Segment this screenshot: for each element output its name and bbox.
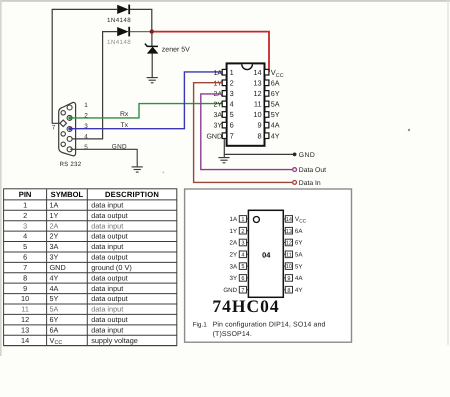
svg-text:RS 232: RS 232 bbox=[60, 161, 82, 168]
svg-text:13: 13 bbox=[21, 325, 29, 334]
J1 pin 8 hole bbox=[61, 132, 65, 136]
svg-text:10: 10 bbox=[21, 294, 29, 303]
Fig pin 10 square bbox=[283, 263, 292, 270]
U1 pin 11 bbox=[265, 101, 269, 107]
svg-text:data output: data output bbox=[91, 211, 128, 220]
U1 pin 2 label 1Y bbox=[213, 80, 222, 87]
table row pin 11 bbox=[21, 305, 123, 314]
J1 pin 4 label bbox=[84, 133, 88, 140]
J1 pin 2 hole bbox=[67, 115, 72, 120]
svg-text:12: 12 bbox=[253, 89, 261, 98]
wire zener anode to ground bbox=[151, 53, 153, 77]
U1 pin 8 label 4Y bbox=[271, 131, 280, 140]
wire J1 pin 5 to ground bbox=[70, 149, 137, 167]
svg-text:4A: 4A bbox=[295, 275, 303, 282]
svg-text:2: 2 bbox=[241, 229, 244, 235]
U1 pin 13 bbox=[265, 80, 269, 86]
svg-text:6Y: 6Y bbox=[50, 315, 59, 324]
J1 pin 7 hole bbox=[60, 120, 67, 127]
table row pin 13 bbox=[21, 325, 123, 334]
svg-text:data input: data input bbox=[91, 242, 123, 251]
U1 pin 11 label 5A bbox=[271, 100, 280, 109]
table row pin 3 bbox=[23, 221, 123, 230]
svg-text:Data In: Data In bbox=[299, 180, 321, 187]
Fig pin 7 label GND bbox=[223, 287, 237, 294]
svg-text:6Y: 6Y bbox=[295, 240, 303, 247]
svg-text:14: 14 bbox=[286, 217, 292, 223]
Fig pin 5 label 3A bbox=[230, 263, 238, 270]
wire Data Out (purple): U1 pin 3 to terminal bbox=[201, 94, 293, 170]
table row pin 2 bbox=[23, 211, 128, 220]
U1 pin 6 number bbox=[230, 121, 234, 130]
Fig pin 10 label 5Y bbox=[295, 263, 303, 270]
caption Fig.1 bbox=[193, 321, 208, 328]
wire node VCC to zener cathode bbox=[151, 33, 153, 46]
Fig pin 8 square bbox=[283, 286, 292, 293]
terminal Data Out dot bbox=[293, 168, 297, 172]
U1 pin 10 number bbox=[253, 110, 261, 119]
U1 pin 1 number bbox=[230, 68, 234, 77]
svg-text:4: 4 bbox=[23, 232, 27, 241]
Fig pin 9 square bbox=[283, 275, 292, 282]
Fig pin 1 label 1A bbox=[230, 216, 238, 223]
caption text line 1 bbox=[213, 320, 326, 328]
U1 pin 7 number bbox=[230, 131, 234, 140]
table row pin 4 bbox=[23, 232, 128, 241]
U1 pin 6 label 3Y bbox=[213, 123, 222, 130]
svg-text:data output: data output bbox=[91, 315, 128, 324]
svg-text:2Y: 2Y bbox=[50, 232, 59, 241]
svg-text:3Y: 3Y bbox=[230, 275, 238, 282]
svg-text:Data Out: Data Out bbox=[299, 167, 326, 174]
wire VCC net (red) to U1 pin 14 bbox=[154, 32, 270, 71]
wire Tx (blue): J1 pin 3 to U1 pin 1 bbox=[70, 72, 222, 129]
svg-text:3Y: 3Y bbox=[50, 253, 59, 262]
U1 pin 5 label 3A bbox=[213, 112, 222, 119]
U1 pin 2 bbox=[222, 80, 226, 86]
svg-text:SYMBOL: SYMBOL bbox=[51, 190, 84, 199]
svg-text:3: 3 bbox=[23, 221, 27, 230]
svg-text:8: 8 bbox=[257, 131, 261, 140]
Fig pin 3 square bbox=[239, 239, 248, 246]
Fig pin 12 square bbox=[283, 239, 292, 246]
svg-text:DESCRIPTION: DESCRIPTION bbox=[105, 190, 159, 199]
Fig pin 1 square bbox=[239, 216, 248, 223]
svg-text:6A: 6A bbox=[50, 325, 59, 334]
svg-text:4A: 4A bbox=[50, 284, 59, 293]
svg-text:data output: data output bbox=[91, 294, 128, 303]
svg-text:1: 1 bbox=[230, 68, 234, 77]
U1 pin 11 number bbox=[254, 100, 262, 109]
U1 pin 3 label 2A bbox=[213, 91, 222, 98]
diode D1 1N4148 bbox=[117, 5, 129, 15]
caption text line 2 bbox=[213, 330, 252, 338]
svg-text:GND: GND bbox=[206, 133, 222, 140]
Fig pin 12 label 6Y bbox=[295, 240, 303, 247]
svg-text:9: 9 bbox=[23, 284, 27, 293]
label 74HC04 bbox=[212, 296, 279, 316]
connector J1 DB9 shell RS 232 bbox=[59, 102, 76, 156]
svg-text:4: 4 bbox=[241, 252, 244, 258]
svg-text:6Y: 6Y bbox=[271, 89, 280, 98]
svg-text:4Y: 4Y bbox=[271, 131, 280, 140]
U1 pin 9 number bbox=[257, 121, 261, 130]
svg-text:12: 12 bbox=[286, 241, 292, 247]
U1 pin 7 label GND bbox=[206, 133, 222, 140]
op IC U1 74HC04 body bbox=[227, 63, 265, 145]
svg-text:6: 6 bbox=[241, 276, 244, 282]
svg-text:1A: 1A bbox=[230, 216, 238, 223]
zener diode D3 5V bbox=[145, 44, 159, 54]
J1 pin 3 label bbox=[84, 123, 88, 130]
J1 pin 4 hole bbox=[67, 136, 72, 141]
U1 pin 3 bbox=[222, 91, 226, 97]
Fig DIP package U2 body bbox=[248, 210, 283, 297]
U1 pin 4 bbox=[222, 101, 226, 107]
U1 pin 3 number bbox=[230, 89, 234, 98]
U1 pin 7 bbox=[222, 133, 226, 139]
Fig pin 6 square bbox=[239, 275, 248, 282]
diode D2 1N4148 bbox=[117, 27, 129, 37]
scan border top bbox=[0, 0, 450, 2]
svg-text:1Y: 1Y bbox=[230, 228, 238, 235]
U1 pin 12 number bbox=[253, 89, 261, 98]
svg-text:5: 5 bbox=[241, 264, 244, 270]
Fig pin 14 square bbox=[283, 216, 292, 223]
svg-text:7: 7 bbox=[52, 125, 56, 132]
table header row bbox=[19, 190, 159, 199]
svg-text:11: 11 bbox=[21, 305, 29, 314]
svg-text:CC: CC bbox=[55, 340, 63, 346]
svg-text:1A: 1A bbox=[213, 70, 222, 77]
terminal Data In dot bbox=[293, 181, 297, 185]
svg-text:5Y: 5Y bbox=[50, 294, 59, 303]
svg-text:1: 1 bbox=[23, 201, 27, 210]
table row pin 6 bbox=[23, 253, 128, 262]
J1 pin 5 label bbox=[84, 144, 88, 151]
J1 pin 3 hole bbox=[67, 127, 72, 132]
svg-text:GND: GND bbox=[50, 263, 66, 272]
svg-text:3A: 3A bbox=[50, 242, 59, 251]
svg-text:data output: data output bbox=[91, 232, 128, 241]
svg-text:data input: data input bbox=[91, 201, 123, 210]
J1 pin 9 hole bbox=[61, 142, 65, 146]
svg-text:data input: data input bbox=[91, 305, 123, 314]
table row pin 10 bbox=[21, 294, 128, 303]
label Data Out terminal bbox=[299, 167, 326, 174]
U1 pin 5 number bbox=[230, 110, 234, 119]
Fig gate label 04 bbox=[262, 250, 271, 259]
U1 pin 12 label 6Y bbox=[271, 89, 280, 98]
Fig pin 6 label 3Y bbox=[230, 275, 238, 282]
U1 pin 6 bbox=[222, 122, 226, 128]
U1 pin 13 label 6A bbox=[271, 78, 280, 87]
svg-text:74HC04: 74HC04 bbox=[212, 296, 279, 316]
svg-text:3: 3 bbox=[241, 241, 244, 247]
Fig.1 box frame bbox=[185, 189, 352, 342]
Fig pin 13 label 6A bbox=[295, 228, 303, 235]
terminal GND dot bbox=[293, 153, 297, 157]
svg-text:1: 1 bbox=[84, 102, 88, 109]
svg-text:9: 9 bbox=[257, 121, 261, 130]
svg-text:13: 13 bbox=[286, 229, 292, 235]
Fig pin 5 square bbox=[239, 263, 248, 270]
label Data In terminal bbox=[299, 180, 321, 187]
U1 pin 4 number bbox=[230, 100, 234, 109]
svg-text:data output: data output bbox=[91, 253, 128, 262]
svg-text:5: 5 bbox=[230, 110, 234, 119]
svg-text:6: 6 bbox=[230, 121, 234, 130]
U1 pin 14 bbox=[265, 69, 269, 75]
svg-text:12: 12 bbox=[21, 315, 29, 324]
U1 pin 10 label 5Y bbox=[271, 110, 280, 119]
U1 pin 5 bbox=[222, 112, 226, 118]
svg-text:3: 3 bbox=[230, 89, 234, 98]
Fig pin 7 square bbox=[239, 286, 248, 293]
svg-text:Pin configuration DIP14, SO14: Pin configuration DIP14, SO14 and bbox=[213, 320, 326, 328]
U1 pin 14 label VCC bbox=[271, 68, 284, 79]
svg-text:5A: 5A bbox=[50, 305, 59, 314]
svg-text:2A: 2A bbox=[230, 240, 238, 247]
U1 pin 1 bbox=[222, 69, 226, 75]
U1 pin 8 bbox=[265, 133, 269, 139]
label D1 value 1N4148 bbox=[107, 17, 131, 24]
svg-text:Rx: Rx bbox=[120, 111, 129, 118]
U1 pin 12 bbox=[265, 91, 269, 97]
scan border right bbox=[447, 0, 448, 345]
svg-text:GND: GND bbox=[112, 144, 127, 151]
svg-text:1N4148: 1N4148 bbox=[107, 17, 131, 24]
svg-text:3A: 3A bbox=[230, 263, 238, 270]
Fig pin 2 square bbox=[239, 227, 248, 234]
label RS 232 bbox=[60, 161, 82, 168]
svg-text:GND: GND bbox=[223, 287, 237, 294]
label zener 5V bbox=[162, 47, 190, 54]
svg-text:5Y: 5Y bbox=[271, 110, 280, 119]
Fig pin 14 label VCC bbox=[295, 216, 307, 224]
U1 pin 8 number bbox=[257, 131, 261, 140]
svg-text:4A: 4A bbox=[271, 121, 280, 130]
svg-text:data input: data input bbox=[91, 325, 123, 334]
wire ground net from U1 pin 7 bbox=[224, 139, 293, 155]
wire Data In (maroon): U1 pin 2 to terminal bbox=[194, 83, 294, 183]
Fig pin 2 label 1Y bbox=[230, 228, 238, 235]
table row pin 7 bbox=[23, 263, 132, 272]
ground symbol below U1 bbox=[218, 158, 229, 163]
svg-text:Tx: Tx bbox=[121, 122, 129, 129]
svg-text:04: 04 bbox=[262, 250, 271, 259]
svg-text:8: 8 bbox=[287, 288, 290, 294]
svg-text:CC: CC bbox=[299, 219, 306, 225]
svg-text:1Y: 1Y bbox=[50, 211, 59, 220]
svg-text:13: 13 bbox=[253, 78, 261, 87]
svg-text:6A: 6A bbox=[295, 228, 303, 235]
table row pin 12 bbox=[21, 315, 128, 324]
pin function table bbox=[4, 189, 177, 346]
Fig pin 11 label 5A bbox=[295, 252, 303, 259]
node J1 pin3 blue dot bbox=[68, 127, 71, 130]
svg-text:1: 1 bbox=[241, 217, 244, 223]
label GND at J1 pin 5 bbox=[112, 144, 127, 151]
node VCC junction bbox=[150, 29, 154, 33]
svg-text:data input: data input bbox=[91, 221, 123, 230]
svg-text:7: 7 bbox=[241, 288, 244, 294]
label Rx bbox=[120, 111, 129, 118]
svg-text:3Y: 3Y bbox=[213, 123, 222, 130]
Fig pin 13 square bbox=[283, 227, 292, 234]
svg-text:2Y: 2Y bbox=[230, 252, 238, 259]
Fig pin 11 square bbox=[283, 251, 292, 258]
table row pin 9 bbox=[23, 284, 123, 293]
U1 pin 1 label 1A bbox=[213, 70, 222, 77]
Fig pin 3 label 2A bbox=[230, 240, 238, 247]
table row pin 1 bbox=[23, 201, 123, 210]
svg-text:data output: data output bbox=[91, 273, 128, 282]
svg-text:1N4148: 1N4148 bbox=[107, 39, 131, 46]
J1 pin 1 label bbox=[84, 102, 88, 109]
Fig pin 8 label 4Y bbox=[295, 287, 303, 294]
U1 pin 13 number bbox=[253, 78, 261, 87]
svg-text:9: 9 bbox=[287, 276, 290, 282]
svg-text:10: 10 bbox=[286, 264, 292, 270]
svg-text:10: 10 bbox=[253, 110, 261, 119]
svg-text:supply voltage: supply voltage bbox=[91, 336, 138, 345]
svg-text:7: 7 bbox=[23, 263, 27, 272]
scan speck bbox=[408, 129, 410, 131]
svg-text:data input: data input bbox=[91, 284, 123, 293]
svg-text:5A: 5A bbox=[271, 100, 280, 109]
Fig pin 9 label 4A bbox=[295, 275, 303, 282]
Fig pin 4 label 2Y bbox=[230, 252, 238, 259]
svg-text:14: 14 bbox=[253, 68, 261, 77]
label Tx bbox=[121, 122, 129, 129]
svg-text:Fig.1: Fig.1 bbox=[193, 321, 208, 328]
svg-text:5A: 5A bbox=[295, 252, 303, 259]
svg-text:8: 8 bbox=[23, 273, 27, 282]
U1 pin 14 number bbox=[253, 68, 261, 77]
node J1 pin2 green dot bbox=[68, 116, 71, 119]
svg-text:7: 7 bbox=[230, 131, 234, 140]
wire D2 cathode to node VCC bbox=[130, 31, 152, 33]
svg-text:GND: GND bbox=[299, 152, 315, 159]
wire D1 cathode to node VCC bbox=[130, 9, 152, 31]
svg-text:zener 5V: zener 5V bbox=[162, 47, 190, 54]
ground symbol below zener bbox=[147, 78, 158, 83]
wire DTR net: DB9 pin 4 to D2 anode bbox=[70, 32, 117, 139]
J1 pin 6 hole bbox=[61, 111, 65, 115]
svg-text:ground (0 V): ground (0 V) bbox=[91, 263, 132, 272]
svg-text:5Y: 5Y bbox=[295, 263, 303, 270]
svg-text:6A: 6A bbox=[271, 78, 280, 87]
J1 pin 5 hole bbox=[67, 147, 72, 152]
svg-text:4: 4 bbox=[230, 100, 234, 109]
U1 pin 9 bbox=[265, 122, 269, 128]
svg-text:4: 4 bbox=[84, 133, 88, 140]
svg-text:3A: 3A bbox=[213, 112, 222, 119]
svg-text:1A: 1A bbox=[50, 201, 59, 210]
wire Rx (green): J1 pin 2 to U1 pin 4 bbox=[70, 104, 222, 118]
svg-text:PIN: PIN bbox=[19, 190, 32, 199]
svg-text:11: 11 bbox=[254, 100, 262, 109]
label D2 value 1N4148 bbox=[107, 39, 131, 46]
U1 pin 9 label 4A bbox=[271, 121, 280, 130]
table row pin 8 bbox=[23, 273, 128, 282]
svg-text:2: 2 bbox=[230, 78, 234, 87]
svg-text:14: 14 bbox=[21, 336, 29, 345]
ground symbol below J1 bbox=[132, 167, 143, 172]
svg-text:6: 6 bbox=[23, 253, 27, 262]
U1 pin 4 label 2Y bbox=[213, 102, 222, 109]
J1 pin 1 hole bbox=[67, 105, 72, 110]
label GND terminal bbox=[299, 152, 315, 159]
svg-text:2A: 2A bbox=[50, 221, 59, 230]
J1 pin 2 label bbox=[84, 112, 88, 119]
J1 pin 7 label bbox=[52, 125, 56, 132]
svg-text:1Y: 1Y bbox=[213, 80, 222, 87]
Fig pin 1 indicator circle bbox=[253, 217, 259, 223]
svg-text:4Y: 4Y bbox=[295, 287, 303, 294]
U1 pin 2 number bbox=[230, 78, 234, 87]
svg-text:11: 11 bbox=[286, 252, 292, 258]
svg-text:2: 2 bbox=[23, 211, 27, 220]
svg-text:4Y: 4Y bbox=[50, 273, 59, 282]
scan border left bbox=[0, 0, 2, 356]
U1 pin 10 bbox=[265, 112, 269, 118]
svg-text:2Y: 2Y bbox=[213, 102, 222, 109]
table row pin 5 bbox=[23, 242, 123, 251]
svg-text:5: 5 bbox=[23, 242, 27, 251]
Fig pin 4 square bbox=[239, 251, 248, 258]
wire RTS net: DB9 pin 7 to D1 anode bbox=[52, 9, 117, 123]
table row pin 14 bbox=[21, 336, 138, 346]
scan speck bbox=[162, 171, 164, 173]
wire stub to ground symbol bbox=[223, 154, 225, 157]
svg-text:(T)SSOP14.: (T)SSOP14. bbox=[213, 330, 252, 338]
